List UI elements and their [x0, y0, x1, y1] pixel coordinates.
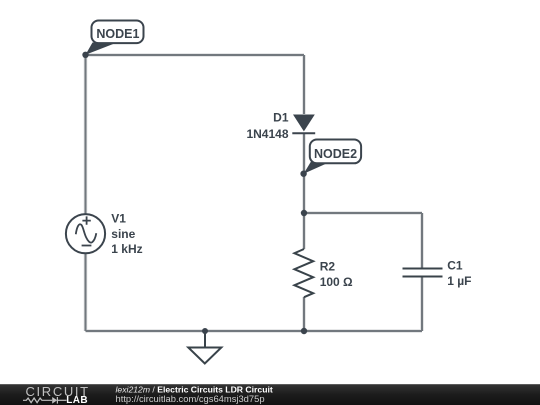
svg-text:1 µF: 1 µF — [447, 274, 471, 288]
svg-text:LAB: LAB — [66, 395, 88, 405]
svg-text:R2: R2 — [320, 259, 336, 273]
svg-text:C1: C1 — [447, 259, 463, 273]
svg-text:100 Ω: 100 Ω — [320, 275, 353, 289]
svg-text:1N4148: 1N4148 — [246, 127, 288, 141]
svg-text:V1: V1 — [111, 212, 126, 226]
svg-text:http://circuitlab.com/cgs64msj: http://circuitlab.com/cgs64msj3d75p — [116, 393, 265, 404]
svg-text:sine: sine — [111, 227, 135, 241]
svg-text:NODE2: NODE2 — [314, 147, 357, 161]
svg-text:NODE1: NODE1 — [96, 27, 139, 41]
svg-text:D1: D1 — [273, 110, 289, 124]
svg-text:1 kHz: 1 kHz — [111, 242, 142, 256]
